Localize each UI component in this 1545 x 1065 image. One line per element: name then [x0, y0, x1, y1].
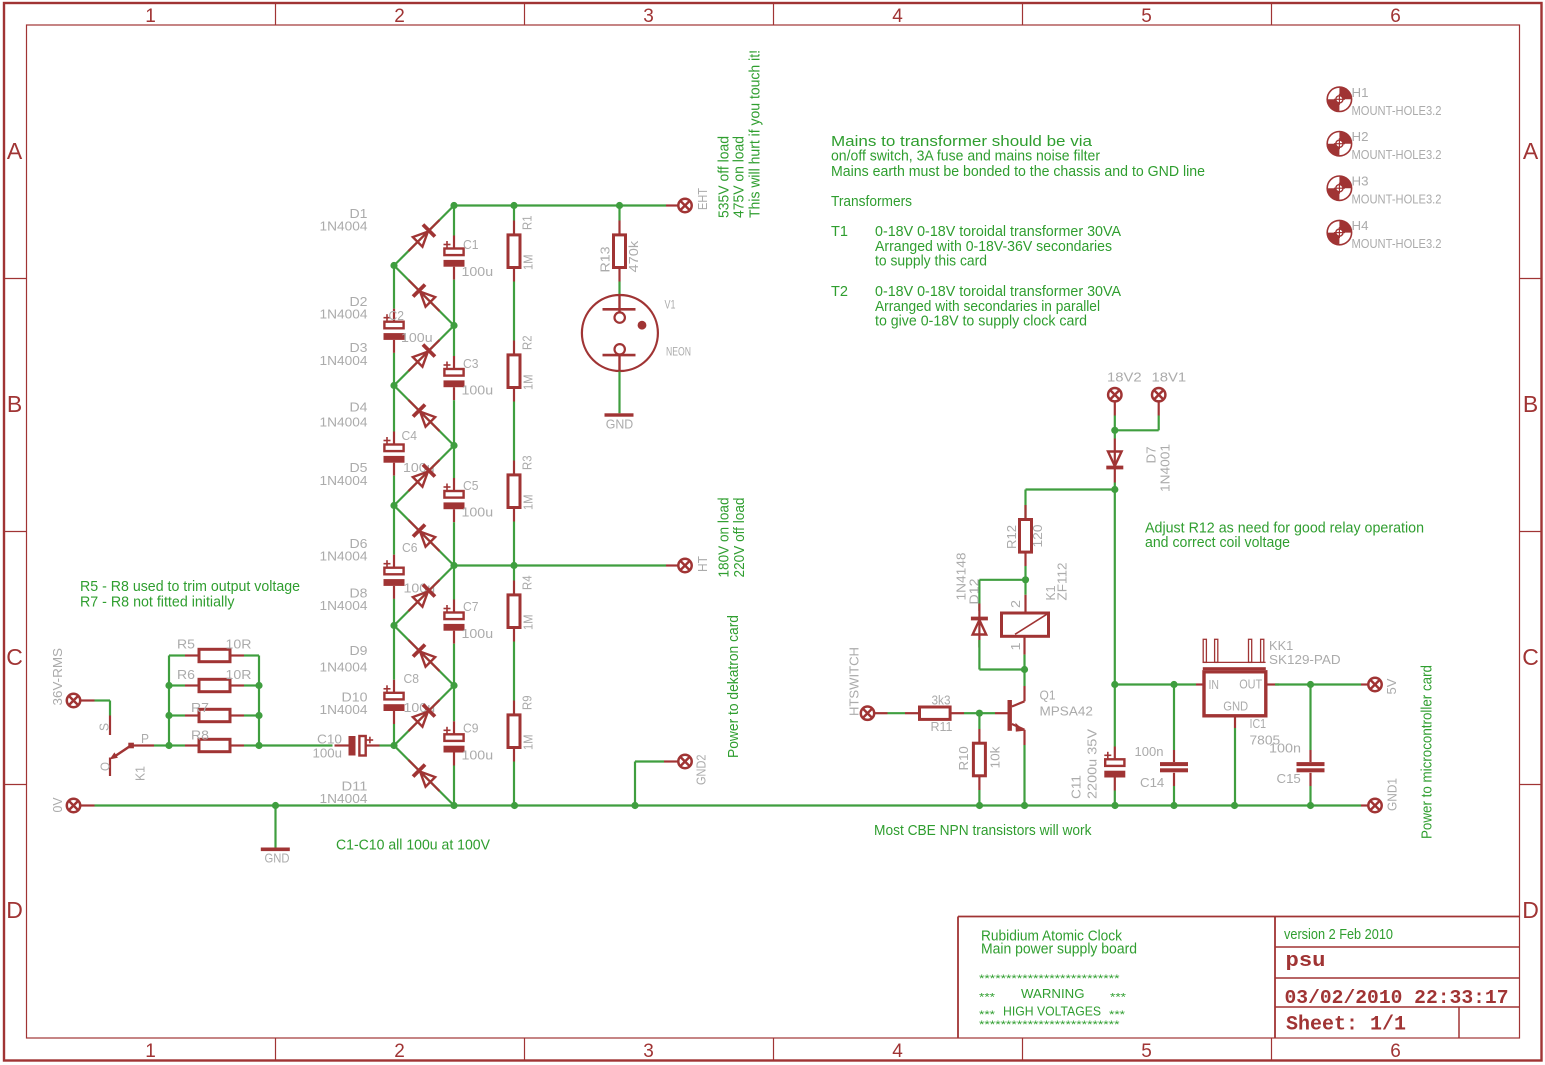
- wire D7 node down: [1114, 490, 1116, 685]
- svg-text:C1-C10 all 100u at 100V: C1-C10 all 100u at 100V: [336, 837, 490, 854]
- junction left rail y385.5: [390, 382, 397, 389]
- connector 18V1: [1152, 388, 1165, 401]
- diode D11: [402, 754, 445, 797]
- wire node to R12: [1026, 488, 1115, 490]
- wire D1 segment: [394, 206, 454, 266]
- svg-text:C4: C4: [402, 429, 418, 443]
- neon lamp V1: [582, 294, 658, 372]
- svg-text:R1: R1: [521, 215, 535, 230]
- svg-text:H4: H4: [1352, 219, 1369, 233]
- wire P to R network: [154, 744, 169, 746]
- svg-text:R7 - R8 not fitted initially: R7 - R8 not fitted initially: [80, 594, 235, 611]
- svg-text:WARNING: WARNING: [1021, 986, 1085, 1001]
- svg-text:**************************: **************************: [979, 1019, 1120, 1031]
- wire neon to GND: [618, 372, 620, 414]
- capacitor C8: [384, 693, 403, 700]
- svg-text:O: O: [99, 762, 113, 771]
- junction 0V x1234.5: [1231, 802, 1238, 809]
- svg-text:4: 4: [892, 6, 903, 27]
- svg-text:R5 - R8 used to trim output vo: R5 - R8 used to trim output voltage: [80, 578, 300, 595]
- svg-text:ZF112: ZF112: [1056, 562, 1070, 600]
- svg-text:100n: 100n: [1269, 742, 1301, 756]
- capacitor C9: [444, 734, 463, 741]
- svg-text:1M: 1M: [522, 615, 536, 631]
- capacitor C5: [444, 491, 463, 498]
- svg-text:HIGH VOLTAGES: HIGH VOLTAGES: [1003, 1004, 1101, 1019]
- mounting hole H3: [1327, 176, 1351, 200]
- svg-text:R6: R6: [177, 668, 195, 682]
- wire 5V rail: [1115, 683, 1196, 685]
- resistor R5: [169, 654, 185, 656]
- svg-text:to give 0-18V to supply clock: to give 0-18V to supply clock card: [875, 313, 1087, 330]
- wire 36V to switch: [95, 699, 111, 701]
- junction right rail y325.5: [450, 322, 457, 329]
- svg-text:B: B: [7, 391, 22, 417]
- wire HTSWITCH to R11: [888, 712, 906, 714]
- svg-text:1N4004: 1N4004: [320, 550, 368, 564]
- junction R network left y715.5: [165, 712, 172, 719]
- svg-text:to supply this card: to supply this card: [875, 253, 987, 270]
- resistor R4: [513, 566, 515, 581]
- wire base: [979, 712, 995, 714]
- svg-text:C5: C5: [463, 479, 479, 493]
- svg-text:**************************: **************************: [979, 973, 1120, 985]
- svg-text:MOUNT-HOLE3.2: MOUNT-HOLE3.2: [1352, 193, 1442, 207]
- connector 5V: [1361, 683, 1369, 685]
- capacitor C3: [444, 369, 463, 376]
- capacitor C14: [1173, 685, 1175, 751]
- svg-text:470k: 470k: [627, 240, 641, 273]
- svg-text:MOUNT-HOLE3.2: MOUNT-HOLE3.2: [1352, 148, 1442, 162]
- svg-text:C14: C14: [1140, 776, 1164, 790]
- svg-text:V1: V1: [665, 300, 676, 312]
- wire right rail C7: [453, 566, 455, 600]
- svg-text:on/off switch, 3A fuse and mai: on/off switch, 3A fuse and mains noise f…: [831, 148, 1100, 165]
- junction right rail y685.5: [450, 682, 457, 689]
- IC1 IN lead: [1196, 683, 1204, 685]
- diode D12: [971, 604, 988, 648]
- svg-text:SK129-PAD: SK129-PAD: [1269, 653, 1341, 667]
- svg-text:R11: R11: [931, 720, 953, 734]
- junction 0V x979.5: [976, 802, 983, 809]
- diode D2: [402, 274, 445, 317]
- svg-text:MOUNT-HOLE3.2: MOUNT-HOLE3.2: [1352, 104, 1442, 118]
- svg-text:D12: D12: [968, 578, 982, 604]
- junction 0V x1310.5: [1307, 802, 1314, 809]
- junction 0V x514.5: [511, 802, 518, 809]
- wire C10 to ladder: [380, 744, 395, 746]
- svg-text:R7: R7: [191, 701, 209, 715]
- svg-text:3: 3: [643, 1041, 654, 1062]
- svg-text:220V off load: 220V off load: [731, 498, 748, 578]
- relay coil K1 pin 1 lead: [1023, 636, 1025, 654]
- junction 0V x454: [450, 802, 457, 809]
- svg-text:1N4001: 1N4001: [1159, 444, 1173, 492]
- capacitor C1: [444, 249, 463, 256]
- svg-text:10R: 10R: [226, 638, 252, 652]
- capacitor C6: [384, 568, 403, 575]
- svg-text:C10: C10: [317, 733, 342, 747]
- svg-text:psu: psu: [1286, 950, 1326, 973]
- svg-text:R13: R13: [599, 246, 613, 272]
- svg-text:1N4004: 1N4004: [320, 792, 368, 806]
- wire D2 segment: [394, 266, 454, 326]
- svg-text:C2: C2: [389, 309, 405, 323]
- ground GND neon: [605, 413, 634, 416]
- svg-text:10R: 10R: [226, 668, 252, 682]
- wire right rail C3: [453, 326, 455, 357]
- svg-text:1M: 1M: [522, 495, 536, 511]
- svg-text:100u: 100u: [462, 265, 494, 279]
- IC1 OUT lead: [1266, 683, 1279, 685]
- svg-text:100u: 100u: [462, 749, 494, 763]
- connector HT: [666, 564, 679, 566]
- diode D4: [402, 394, 445, 437]
- svg-text:120: 120: [1031, 524, 1045, 547]
- svg-text:03/02/2010 22:33:17: 03/02/2010 22:33:17: [1285, 987, 1509, 1009]
- svg-text:36V-RMS: 36V-RMS: [51, 648, 65, 706]
- svg-text:1N4004: 1N4004: [320, 308, 368, 322]
- svg-text:T1: T1: [831, 223, 848, 240]
- svg-text:IC1: IC1: [1250, 717, 1267, 731]
- svg-text:1: 1: [145, 1041, 156, 1062]
- svg-text:C15: C15: [1277, 772, 1301, 786]
- wire 18V1 down: [1158, 416, 1160, 431]
- diode D3: [402, 334, 445, 377]
- switch K1 contact S pin: [109, 716, 111, 736]
- junction EHT/R13: [616, 202, 623, 209]
- junction left rail y625.5: [390, 622, 397, 629]
- svg-text:NEON: NEON: [666, 347, 691, 359]
- junction EHT/D1: [450, 202, 457, 209]
- junction left rail y505.5: [390, 502, 397, 509]
- svg-text:1N4004: 1N4004: [320, 416, 368, 430]
- wire D4 segment: [394, 386, 454, 446]
- svg-text:D: D: [6, 897, 23, 923]
- svg-text:D: D: [1522, 897, 1539, 923]
- wire D9 segment: [394, 626, 454, 686]
- resistor R8: [169, 744, 185, 746]
- svg-text:D9: D9: [350, 644, 368, 658]
- junction C15 top: [1307, 681, 1314, 688]
- junction R network right y745.5: [255, 742, 262, 749]
- connector EHT: [666, 204, 679, 206]
- diode D5: [402, 454, 445, 497]
- svg-text:HTSWITCH: HTSWITCH: [848, 647, 862, 716]
- svg-text:2: 2: [394, 1041, 405, 1062]
- svg-text:R5: R5: [177, 638, 195, 652]
- svg-text:A: A: [7, 138, 23, 164]
- svg-text:GND: GND: [606, 418, 634, 432]
- svg-text:R3: R3: [521, 455, 535, 470]
- wire Q1 emitter to 0V: [1023, 745, 1025, 806]
- wire left rail C8: [393, 626, 395, 680]
- wire R8 to C10: [259, 744, 333, 746]
- svg-text:***: ***: [979, 992, 996, 1004]
- svg-text:***: ***: [1110, 992, 1127, 1004]
- svg-text:Q1: Q1: [1040, 689, 1056, 703]
- junction R network right y715.5: [255, 712, 262, 719]
- svg-text:R8: R8: [191, 729, 209, 743]
- svg-text:K1: K1: [134, 766, 148, 781]
- resistor R12: [1024, 505, 1026, 520]
- wire R10 top: [978, 713, 980, 729]
- svg-text:5: 5: [1141, 6, 1152, 27]
- svg-text:S: S: [98, 723, 112, 731]
- svg-text:1N4004: 1N4004: [320, 661, 368, 675]
- svg-text:100u: 100u: [313, 747, 343, 761]
- svg-text:This will hurt if you touch it: This will hurt if you touch it!: [747, 50, 764, 218]
- svg-text:Transformers: Transformers: [831, 193, 912, 210]
- svg-text:EHT: EHT: [696, 188, 710, 210]
- wire R network right rail: [258, 656, 260, 746]
- capacitor C7: [444, 613, 463, 620]
- svg-text:C: C: [1522, 644, 1539, 670]
- svg-text:1N4004: 1N4004: [320, 474, 368, 488]
- svg-text:1: 1: [145, 6, 156, 27]
- svg-text:0V: 0V: [51, 797, 65, 813]
- junction C11 top: [1111, 681, 1118, 688]
- relay coil K1 pin 2 lead: [1024, 580, 1026, 595]
- svg-text:1N4148: 1N4148: [955, 552, 969, 600]
- resistor R13: [618, 206, 620, 221]
- svg-text:C1: C1: [463, 238, 479, 252]
- svg-text:GND: GND: [1223, 700, 1248, 714]
- junction R network left y685.5: [165, 682, 172, 689]
- wire D12 bottom: [978, 640, 980, 670]
- junction R12/D12/coil: [1022, 576, 1029, 583]
- svg-text:1N4004: 1N4004: [320, 599, 368, 613]
- wire left rail C4: [393, 386, 395, 432]
- junction base/R10: [976, 710, 983, 717]
- svg-text:H2: H2: [1352, 130, 1369, 144]
- diode D1: [402, 214, 445, 257]
- svg-text:1N4004: 1N4004: [320, 354, 368, 368]
- connector HTSWITCH: [861, 707, 874, 720]
- svg-text:475V on load: 475V on load: [731, 136, 748, 218]
- svg-text:5: 5: [1141, 1041, 1152, 1062]
- wire R10 bottom: [978, 790, 980, 806]
- svg-text:GND2: GND2: [695, 754, 709, 785]
- junction 0V x1115: [1111, 802, 1118, 809]
- svg-text:2200u 35V: 2200u 35V: [1086, 728, 1100, 799]
- resistor R10: [978, 729, 980, 743]
- svg-text:100n: 100n: [1135, 745, 1164, 759]
- connector 0V: [67, 799, 80, 812]
- junction left rail y745.5: [390, 742, 397, 749]
- svg-text:3k3: 3k3: [932, 693, 951, 707]
- svg-text:6: 6: [1390, 1041, 1401, 1062]
- heatsink KK1: [1203, 639, 1266, 670]
- svg-text:B: B: [1523, 391, 1538, 417]
- diode D9: [402, 634, 445, 677]
- wire 18V2 down: [1114, 416, 1116, 431]
- switch K1 blade: [110, 743, 134, 759]
- svg-text:H1: H1: [1352, 86, 1369, 100]
- capacitor C10: [335, 744, 349, 746]
- svg-text:18V1: 18V1: [1152, 371, 1187, 385]
- wire right rail C9: [453, 686, 455, 722]
- resistor R7: [169, 714, 185, 716]
- junction C14 top: [1170, 681, 1177, 688]
- transistor Q1: [1008, 686, 1025, 745]
- voltage regulator IC1: [1204, 672, 1266, 716]
- svg-text:C3: C3: [463, 357, 479, 371]
- svg-text:18V2: 18V2: [1107, 371, 1142, 385]
- switch K1 P lead: [131, 744, 154, 746]
- diode D6: [402, 514, 445, 557]
- wire D3 segment: [394, 326, 454, 386]
- svg-text:A: A: [1523, 138, 1539, 164]
- svg-text:OUT: OUT: [1239, 678, 1262, 692]
- svg-text:Mains earth must be bonded to: Mains earth must be bonded to the chassi…: [831, 163, 1205, 180]
- connector 36V-RMS: [67, 694, 80, 707]
- junction 18V: [1111, 427, 1118, 434]
- wire R12 to relay: [1024, 566, 1026, 580]
- svg-text:D7: D7: [1145, 446, 1159, 463]
- svg-text:R4: R4: [521, 575, 535, 590]
- wire right rail C1: [453, 206, 455, 236]
- wire left rail C2: [393, 266, 395, 309]
- svg-text:100u: 100u: [462, 506, 494, 520]
- junction 0V x1174: [1170, 802, 1177, 809]
- svg-text:GND1: GND1: [1386, 778, 1400, 811]
- wire D10 segment: [394, 686, 454, 746]
- connector GND2: [664, 760, 679, 762]
- ground GND: [274, 806, 276, 848]
- wire D6 segment: [394, 506, 454, 566]
- junction HT ladder: [450, 562, 457, 569]
- svg-text:R12: R12: [1005, 525, 1019, 549]
- wire D7 to node: [1114, 483, 1116, 490]
- svg-text:H3: H3: [1352, 175, 1369, 189]
- wire coil to Q1 collector: [1023, 670, 1025, 687]
- diode D7: [1106, 439, 1123, 483]
- svg-text:3: 3: [643, 6, 654, 27]
- junction HT R4: [510, 562, 517, 569]
- svg-text:MPSA42: MPSA42: [1040, 705, 1093, 719]
- wire 0V rail: [95, 804, 1362, 806]
- junction R network left y745.5: [165, 742, 172, 749]
- wire to D12 top: [979, 579, 1025, 581]
- svg-text:KK1: KK1: [1269, 639, 1293, 653]
- capacitor C4: [384, 445, 403, 452]
- svg-text:D5: D5: [350, 461, 368, 475]
- svg-text:version 2 Feb 2010: version 2 Feb 2010: [1284, 926, 1393, 943]
- svg-text:and correct coil voltage: and correct coil voltage: [1145, 534, 1290, 551]
- svg-text:C7: C7: [463, 600, 479, 614]
- svg-text:Power to dekatron card: Power to dekatron card: [725, 615, 742, 758]
- wire IC1 GND to 0V: [1234, 728, 1236, 806]
- svg-text:1M: 1M: [522, 255, 536, 271]
- svg-text:MOUNT-HOLE3.2: MOUNT-HOLE3.2: [1352, 237, 1442, 251]
- svg-text:IN: IN: [1209, 678, 1220, 692]
- svg-text:100u: 100u: [462, 627, 494, 641]
- resistor R2: [513, 326, 515, 341]
- svg-text:Most CBE NPN transistors will: Most CBE NPN transistors will work: [874, 822, 1092, 839]
- svg-text:R9: R9: [521, 695, 535, 710]
- svg-text:C9: C9: [463, 722, 479, 736]
- svg-text:Main power supply board: Main power supply board: [981, 941, 1137, 958]
- junction R network right y685.5: [255, 682, 262, 689]
- junction 0V x275.5: [272, 802, 279, 809]
- wire R11 to base: [964, 712, 979, 714]
- junction 0V x1024.5: [1021, 802, 1028, 809]
- resistor R3: [513, 446, 515, 461]
- resistor R11: [905, 712, 920, 714]
- resistor R1: [513, 206, 515, 221]
- svg-text:C11: C11: [1070, 775, 1084, 799]
- wire 18V to D7: [1114, 430, 1116, 438]
- capacitor C11: [1114, 685, 1116, 747]
- svg-text:1N4004: 1N4004: [320, 703, 368, 717]
- resistor R9: [513, 686, 515, 701]
- wire EHT net: [454, 204, 666, 206]
- svg-text:T2: T2: [831, 283, 848, 300]
- mounting hole H2: [1327, 132, 1351, 156]
- wire left rail C6: [393, 506, 395, 555]
- svg-text:Sheet: 1/1: Sheet: 1/1: [1286, 1014, 1406, 1037]
- resistor R6: [169, 684, 185, 686]
- capacitor C2: [384, 322, 403, 329]
- svg-text:C: C: [6, 644, 23, 670]
- wire GND2 riser: [634, 762, 636, 806]
- svg-text:C8: C8: [404, 672, 420, 686]
- connector 18V2: [1108, 388, 1121, 401]
- wire D11 segment: [394, 746, 454, 806]
- svg-text:1: 1: [1009, 642, 1023, 650]
- junction D7 out: [1111, 486, 1118, 493]
- svg-text:2: 2: [1009, 600, 1023, 608]
- wire OUT to 5V: [1275, 683, 1361, 685]
- junction right rail y445.5: [450, 442, 457, 449]
- svg-text:D4: D4: [350, 401, 368, 415]
- wire D8 segment: [394, 566, 454, 626]
- svg-text:5V: 5V: [1385, 678, 1399, 695]
- svg-text:P: P: [141, 732, 149, 746]
- svg-text:1M: 1M: [522, 735, 536, 751]
- relay coil K1: [1002, 613, 1049, 636]
- svg-text:6: 6: [1390, 6, 1401, 27]
- svg-text:GND: GND: [265, 852, 290, 866]
- diode D10: [402, 694, 445, 737]
- svg-text:R10: R10: [957, 746, 971, 770]
- svg-text:Power to microcontroller card: Power to microcontroller card: [1419, 665, 1436, 839]
- junction left rail y265.5: [390, 262, 397, 269]
- capacitor C15: [1309, 685, 1311, 751]
- mounting hole H4: [1327, 220, 1351, 244]
- svg-text:1M: 1M: [522, 375, 536, 391]
- svg-text:C6: C6: [402, 541, 418, 555]
- IC1 GND lead: [1234, 716, 1236, 729]
- junction 0V x635: [631, 802, 638, 809]
- svg-text:D3: D3: [350, 341, 368, 355]
- svg-text:HT: HT: [696, 556, 710, 572]
- svg-text:2: 2: [394, 6, 405, 27]
- svg-text:100u: 100u: [401, 331, 433, 345]
- svg-text:100u: 100u: [462, 384, 494, 398]
- connector GND1: [1361, 804, 1369, 806]
- svg-text:180V on load: 180V on load: [716, 498, 733, 578]
- svg-text:1N4004: 1N4004: [320, 219, 368, 233]
- wire right rail C5: [453, 446, 455, 479]
- junction coil/emitter: [1021, 666, 1028, 673]
- wire D5 segment: [394, 446, 454, 506]
- svg-text:R2: R2: [521, 335, 535, 350]
- diode D8: [402, 574, 445, 617]
- junction EHT/R1: [510, 202, 517, 209]
- mounting hole H1: [1327, 87, 1351, 111]
